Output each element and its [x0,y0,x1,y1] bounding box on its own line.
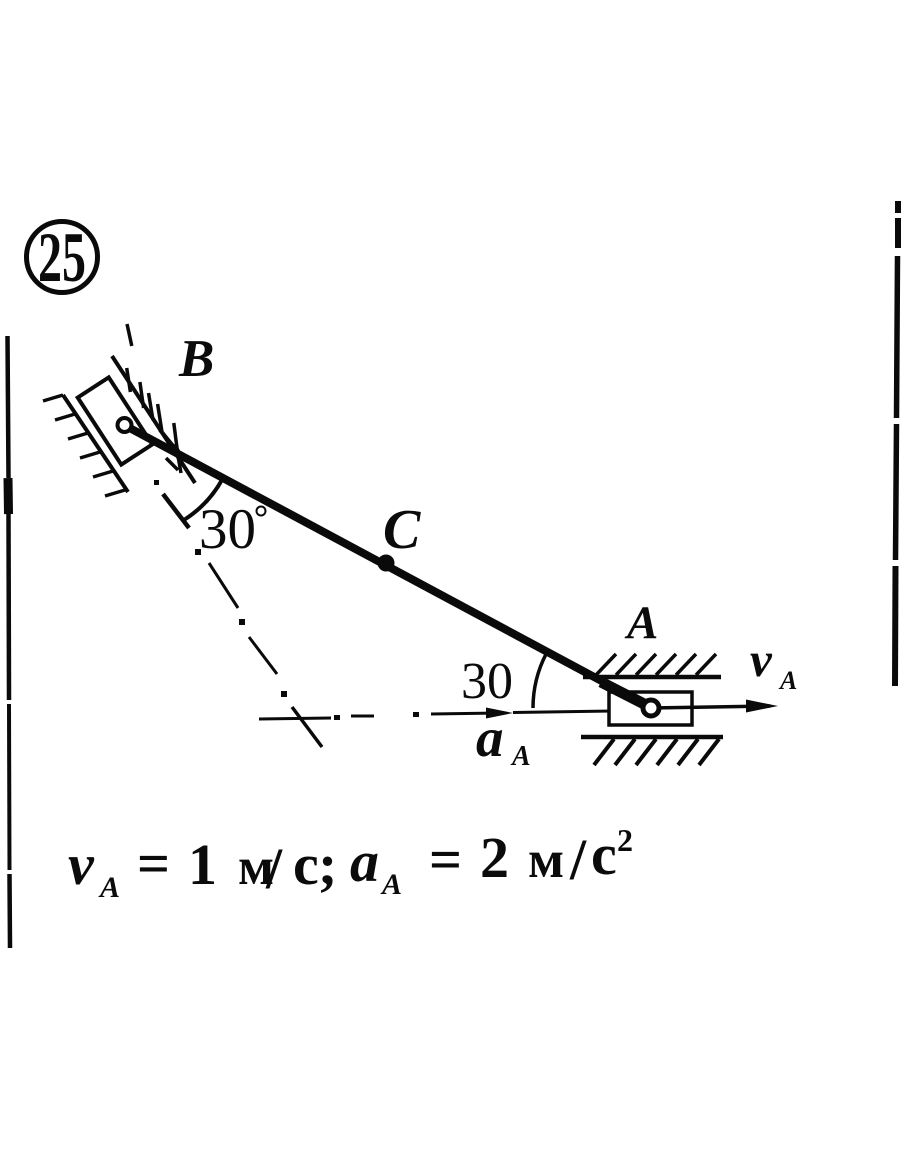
svg-text:/: / [569,827,587,892]
lower rail at A [581,735,723,740]
hatch ticks on lower-left rail [43,395,125,496]
acceleration arrow a_A on axis [486,708,513,719]
svg-text:C: C [383,499,421,561]
right page-edge scan bar [895,201,898,686]
svg-text:a: a [476,707,504,768]
rod end into slider A [601,682,648,706]
svg-text:A: A [624,597,658,649]
svg-text:;: ; [318,832,337,897]
svg-text:A: A [98,871,120,904]
pin at A [643,700,659,716]
hatch ticks on upper-right rail [127,324,181,473]
left page-edge scan bar [8,336,11,948]
svg-text:30: 30 [461,653,513,710]
svg-text:25: 25 [38,219,86,297]
slider B rectangle [78,377,153,464]
svg-text:A: A [380,868,402,901]
small arrow on rod near B [160,430,178,452]
degree mark at B [257,507,266,516]
hatch ticks below lower rail at A [594,739,719,765]
svg-text:B: B [178,330,214,388]
svg-text:A: A [510,741,531,772]
svg-text:м: м [528,831,564,889]
angle arc at B [185,478,223,520]
pin at B [118,418,132,432]
incline dash-dot axis from B [163,494,322,747]
svg-text:2: 2 [617,822,633,858]
incline upper-right rail at B [112,356,195,483]
svg-text:v: v [750,632,773,687]
svg-text:=: = [429,827,462,892]
svg-text:с: с [591,822,617,887]
dots of horizontal dash-dot axis [334,712,419,720]
velocity arrow v_A [651,706,770,708]
svg-text:=: = [137,831,170,896]
svg-text:A: A [778,666,797,695]
slider A rectangle [609,692,692,725]
problem number circle 25 [27,222,98,293]
rod B-C-A [126,426,652,708]
point C dot on rod [378,555,395,572]
svg-text:v: v [68,832,95,897]
angle arc at A [533,654,546,708]
hatch ticks above upper rail at A [596,654,716,675]
svg-text:2: 2 [480,825,509,890]
horizontal dash-dot axis [259,713,500,719]
dots of incline dash-dot axis [154,480,287,697]
svg-text:/: / [265,836,283,901]
svg-text:1: 1 [188,832,217,897]
svg-text:30: 30 [199,498,256,561]
incline lower-left rail at B [63,395,128,492]
svg-text:a: a [350,829,379,894]
svg-text:с: с [293,832,319,897]
formula v_A = 1 m/s; a_A = 2 m/s^2 [68,822,633,904]
upper rail at A [583,675,721,680]
